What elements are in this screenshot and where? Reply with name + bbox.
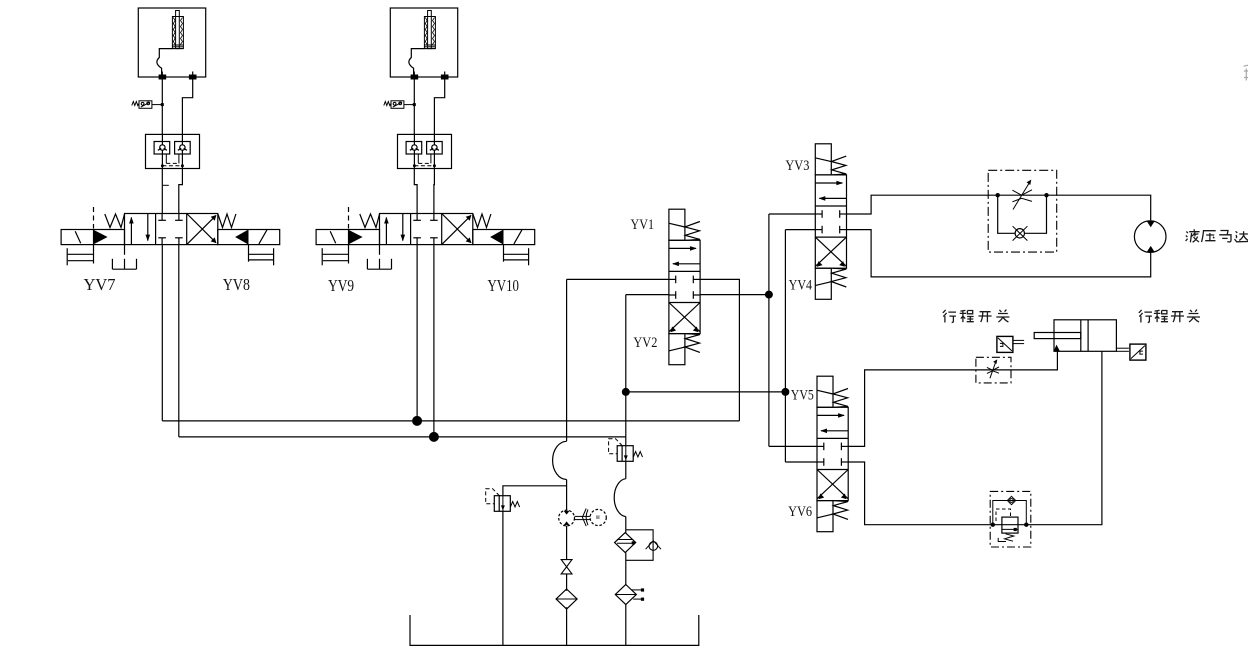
wire YV9/10 port P down to bus1 — [416, 245, 418, 421]
pump pressure riser — [566, 279, 568, 441]
junction dot return riser — [622, 388, 630, 396]
coupling — [582, 509, 586, 527]
check valve ball — [1015, 229, 1024, 238]
pump riser lower segment — [566, 480, 568, 511]
cb drain bracket — [998, 538, 1006, 542]
counterbalance valve box (dash-dot) — [990, 491, 1031, 547]
bus1 pressure line — [162, 420, 739, 422]
label hydraulic motor — [1186, 229, 1248, 242]
wire YV9/10 port T down to bus2 — [433, 245, 435, 437]
cooler bypass loop — [626, 530, 653, 561]
port arrow at cylinder — [1054, 345, 1060, 352]
junction dot throttle left — [996, 193, 1000, 197]
wire YV5 right upper to cylinder left port — [848, 351, 1057, 446]
directional valve YV3/YV4 — [815, 144, 846, 300]
return filter — [615, 585, 644, 605]
bypass check loop right — [1025, 195, 1047, 233]
stub near valve A — [163, 184, 169, 186]
pump arrow top — [564, 511, 570, 515]
junction dot bus2/YV9 — [429, 432, 439, 442]
wire cooler to return filter — [625, 553, 627, 585]
wire cyl1 left port down — [161, 72, 163, 135]
cb valve body — [1002, 517, 1018, 533]
cb check diamond — [1007, 496, 1015, 504]
limit switch right — [1116, 344, 1146, 360]
cb pilot dashes — [996, 509, 1011, 521]
limit switch left — [997, 336, 1024, 352]
pressure switch 1 — [132, 101, 164, 109]
svg-text:YV4: YV4 — [789, 278, 813, 294]
svg-text:YV10: YV10 — [488, 276, 520, 295]
return riser upper — [625, 295, 627, 446]
svg-text:YV2: YV2 — [633, 335, 657, 351]
pressure switch 2 — [384, 101, 416, 109]
cb spring — [1005, 534, 1014, 541]
directional valve YV5/YV6 — [817, 376, 848, 531]
bus1 riser to YV1 right upper port — [700, 279, 739, 421]
stub to YV3 left upper — [769, 213, 815, 215]
suction filter — [556, 589, 577, 609]
directional valve YV7/YV8 — [61, 207, 280, 269]
riser x785 (YV3 to YV5 lower ports) — [784, 230, 786, 462]
wire block1 to valve port B with jog — [179, 169, 183, 214]
riser x769 (YV3 to YV5 upper ports) — [768, 214, 770, 446]
directional valve YV9/YV10 — [316, 207, 535, 269]
wire YV1 left upper port to pump riser — [567, 278, 669, 280]
wire shutoff to filter — [566, 574, 568, 591]
svg-text:YV9: YV9 — [328, 276, 354, 295]
pump arrow bottom — [564, 521, 570, 525]
stub to YV5 left upper — [769, 445, 817, 447]
pump — [559, 510, 575, 526]
link wire y392 — [626, 391, 786, 393]
relief valve return — [609, 439, 643, 462]
cylinder assembly box 2 — [390, 8, 457, 80]
label limit switch right — [1139, 310, 1200, 323]
wire relief-L drain to tank — [502, 511, 504, 645]
return riser mid (bus2 to relief) — [609, 439, 643, 533]
wire return filter to tank — [625, 605, 627, 646]
wire cyl1 right port down with jog — [182, 72, 192, 135]
pilot check valve block 2 — [398, 134, 452, 168]
junction dot riser x785 — [781, 388, 789, 396]
wire YV7/8 port P down to bus1 — [161, 245, 163, 421]
motor bottom arrow — [1147, 246, 1155, 252]
wire pump to shutoff — [566, 526, 568, 560]
hose arc on pump riser — [553, 441, 567, 479]
wire relief-L top link — [503, 486, 567, 496]
wire YV7/8 port T down to bus2 — [178, 245, 180, 437]
wire filter to tank — [566, 607, 568, 645]
svg-text:YV6: YV6 — [788, 504, 812, 520]
cooler diamond — [615, 533, 636, 553]
partial gray character at right edge — [1244, 65, 1248, 80]
wire block2 to valve port A with jog — [414, 169, 417, 214]
bus2 tank line — [179, 436, 626, 438]
svg-text:YV8: YV8 — [223, 275, 250, 294]
svg-text:YV7: YV7 — [84, 275, 116, 294]
throttle symbol — [1012, 180, 1032, 210]
throttle box 2 (dash-dot) — [976, 357, 1011, 383]
wire block1 to valve port A — [161, 169, 163, 214]
hydraulic cylinder — [1034, 320, 1116, 352]
electric motor — [590, 509, 606, 525]
pilot check valve block 1 — [146, 134, 200, 168]
throttle symbol 2 — [987, 359, 999, 378]
check valve seat — [1013, 226, 1028, 240]
stub to YV5 left lower — [785, 461, 817, 463]
wire block2 to valve port B with jog — [433, 169, 436, 214]
cb bypass loop — [993, 501, 1027, 525]
wire relief-R below — [625, 461, 627, 478]
wire YV5 right lower to cylinder right port — [848, 351, 1102, 524]
wire arc to cooler — [625, 517, 627, 533]
wire YV1 left lower port to return riser — [626, 294, 669, 296]
wire YV1 right lower port to YV3/YV5 riser — [700, 294, 769, 296]
junction dot bus1/YV9 — [412, 416, 422, 426]
junction dot cb right — [1024, 523, 1028, 527]
hose arc on return riser — [614, 479, 626, 517]
flow control valve box (dash-dot) — [988, 170, 1056, 252]
junction dot cb left — [991, 523, 995, 527]
junction dot throttle right — [1044, 193, 1048, 197]
svg-text:YV5: YV5 — [791, 388, 814, 404]
drive shaft — [575, 515, 591, 517]
label limit switch left — [943, 310, 1010, 323]
cylinder assembly box 1 — [138, 8, 205, 80]
stub to YV3 left lower — [785, 229, 815, 231]
wire YV3 right lower to motor bottom — [847, 230, 1151, 277]
wire YV3 right upper to motor top — [847, 195, 1151, 220]
motor top arrow — [1147, 221, 1155, 227]
junction dot riser x769 — [765, 291, 773, 299]
wire cyl2 right port down with jog — [434, 72, 444, 135]
relief valve left — [486, 489, 520, 512]
bypass check loop left — [998, 195, 1015, 233]
bypass check ball — [649, 542, 658, 551]
svg-text:YV3: YV3 — [785, 158, 809, 174]
svg-text:YV1: YV1 — [631, 217, 655, 233]
tank — [410, 615, 699, 645]
directional valve YV1/YV2 — [669, 209, 700, 365]
hydraulic motor — [1134, 221, 1166, 253]
wire cyl2 left port down — [413, 72, 415, 135]
bypass check seat — [646, 541, 661, 550]
shutoff valve — [561, 560, 572, 574]
